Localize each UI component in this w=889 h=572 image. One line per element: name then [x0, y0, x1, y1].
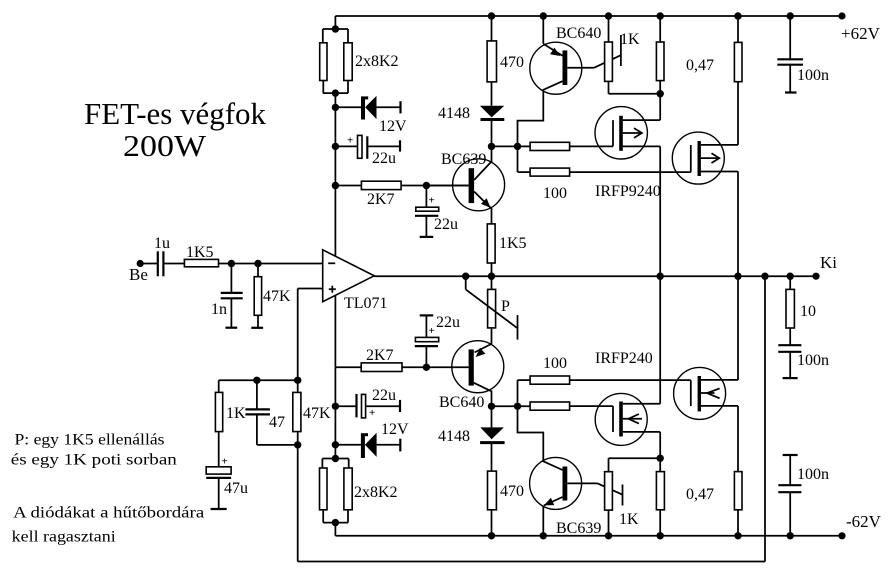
ground stub 1n [225, 327, 237, 329]
resistor 1K5 input [184, 244, 322, 267]
capacitor 47 [245, 380, 297, 445]
svg-text:1K5: 1K5 [186, 244, 214, 261]
svg-text:100n: 100n [797, 352, 829, 369]
resistor 100 upper first [518, 142, 614, 150]
svg-text:P: egy 1K5 ellenállás: P: egy 1K5 ellenállás [15, 432, 165, 449]
svg-text:TL071: TL071 [344, 295, 388, 312]
resistor 100 upper second [518, 168, 691, 202]
svg-text:10: 10 [800, 303, 816, 320]
svg-text:FET-es végfok: FET-es végfok [84, 96, 266, 131]
svg-text:100n: 100n [797, 67, 829, 84]
svg-text:200W: 200W [123, 128, 207, 163]
transistor M4 IRFP240 [674, 276, 738, 471]
svg-text:-62V: -62V [846, 512, 882, 531]
potentiometer P [466, 276, 518, 344]
resistor 100 lower second [530, 402, 613, 410]
svg-text:P: P [501, 298, 510, 315]
svg-text:22u: 22u [436, 314, 460, 331]
resistor 10 Zobel [786, 276, 816, 328]
wire -62V bottom rail [335, 535, 842, 537]
svg-text:1u: 1u [154, 235, 170, 252]
capacitor 1n [211, 264, 243, 328]
node top rail junctions [488, 12, 794, 19]
transistor M1 IRFP9240 [595, 94, 661, 277]
svg-text:2K7: 2K7 [366, 347, 394, 364]
svg-text:1K: 1K [619, 511, 639, 528]
svg-text:22u: 22u [434, 216, 458, 233]
resistor 2K7 upper [335, 181, 468, 208]
wire output bus to Ki [374, 275, 816, 277]
svg-text:+: + [369, 407, 375, 419]
note diodes text [12, 505, 205, 546]
resistor 2x8K2 upper pair [320, 16, 399, 97]
svg-text:2x8K2: 2x8K2 [354, 484, 398, 501]
svg-text:4148: 4148 [438, 428, 470, 445]
svg-text:470: 470 [500, 483, 524, 500]
svg-text:12V: 12V [379, 118, 407, 135]
wire noninverting node column [294, 289, 301, 393]
wire left node column upper [332, 93, 339, 189]
transistor Q3 BC640 lower [426, 341, 503, 411]
svg-text:BC640: BC640 [556, 25, 601, 42]
svg-text:+: + [429, 325, 435, 337]
ground stub 47K [251, 327, 263, 329]
svg-text:BC639: BC639 [441, 151, 486, 168]
svg-text:100n: 100n [797, 466, 829, 483]
capacitor 22u lower vertical [415, 314, 460, 367]
resistor 0,47 lower left [656, 455, 714, 536]
svg-text:1K: 1K [620, 31, 640, 48]
svg-text:+62V: +62V [841, 24, 881, 43]
svg-text:1K: 1K [226, 405, 246, 422]
resistor 1K feedback [215, 380, 246, 467]
svg-text:és egy 1K poti sorban: és egy 1K poti sorban [11, 451, 177, 468]
node -62V terminal [838, 512, 881, 539]
diode D1 4148 upper [438, 82, 504, 146]
capacitor 22u upper vertical [415, 186, 458, 237]
title text [84, 96, 266, 163]
resistor 470 upper [487, 16, 524, 82]
capacitor 47u [206, 456, 248, 510]
capacitor 22u upper horizontal [335, 135, 400, 167]
svg-text:2K7: 2K7 [367, 191, 395, 208]
svg-text:Be: Be [129, 265, 148, 284]
svg-text:+: + [429, 195, 435, 207]
svg-text:IRFP9240: IRFP9240 [595, 183, 661, 200]
wire op-amp noninverting input [298, 288, 323, 290]
capacitor 100n upper [777, 16, 829, 93]
node Be input terminal [129, 260, 148, 284]
node +62V terminal [838, 12, 880, 43]
svg-text:47K: 47K [263, 288, 291, 305]
svg-text:1K5: 1K5 [499, 235, 527, 252]
node collector junction lower [488, 380, 530, 410]
svg-text:BC640: BC640 [439, 394, 484, 411]
resistor 2x8K2 lower pair [320, 455, 398, 536]
wire feedback node row [219, 377, 298, 384]
diode D2 4148 lower [438, 406, 505, 471]
svg-text:1n: 1n [211, 301, 227, 318]
node output bus junctions [462, 273, 794, 280]
resistor 47K feedback [293, 392, 331, 448]
resistor 47K input [254, 264, 291, 328]
wire op-amp V+ supply [334, 186, 336, 368]
transistor Q4 BC639 lower [518, 406, 623, 537]
transistor M3 IRFP240 [595, 276, 660, 458]
svg-text:+: + [222, 456, 228, 468]
svg-text:2x8K2: 2x8K2 [355, 53, 399, 70]
transistor M2 IRFP9240 [672, 82, 738, 277]
resistor 0,47 lower right [734, 472, 742, 536]
svg-text:0,47: 0,47 [686, 57, 714, 74]
svg-text:12V: 12V [381, 421, 409, 438]
svg-text:100: 100 [543, 355, 567, 372]
note P text [11, 432, 177, 469]
resistor 1K5 emitter [487, 224, 526, 276]
svg-text:22u: 22u [372, 150, 396, 167]
svg-text:IRFP240: IRFP240 [595, 350, 653, 367]
potentiometer 1K upper [605, 16, 661, 94]
svg-text:A diódákat a hűtőbordára: A diódákat a hűtőbordára [13, 505, 204, 522]
capacitor 1u input [140, 235, 184, 276]
diode zener 12V upper [335, 96, 407, 135]
svg-text:47: 47 [269, 414, 285, 431]
svg-text:kell ragasztani: kell ragasztani [12, 529, 117, 546]
diode zener 12V lower [335, 421, 409, 458]
resistor 2K7 lower [335, 347, 430, 372]
potentiometer 1K lower [605, 458, 661, 536]
svg-text:4148: 4148 [438, 105, 470, 122]
svg-text:Ki: Ki [820, 253, 837, 272]
svg-text:0,47: 0,47 [686, 486, 714, 503]
svg-text:22u: 22u [372, 387, 396, 404]
op-amp U1 TL071 [323, 250, 388, 312]
svg-text:+: + [347, 135, 353, 147]
svg-text:100: 100 [543, 185, 567, 202]
wire left node column lower [332, 367, 339, 458]
capacitor 100n Zobel [778, 328, 829, 378]
svg-text:470: 470 [500, 54, 524, 71]
resistor 470 lower [488, 471, 525, 536]
transistor Q2 BC640 [518, 16, 621, 146]
svg-text:47u: 47u [224, 480, 248, 497]
node Ki terminal [812, 253, 837, 280]
transistor Q1 BC639 [426, 146, 504, 224]
node bottom rail junctions [488, 532, 794, 539]
resistor 0,47 upper right [734, 16, 742, 82]
svg-text:BC639: BC639 [556, 520, 601, 537]
wire +62V top rail [335, 15, 842, 17]
wire feedback loop [298, 276, 765, 561]
resistor 0,47 upper left [656, 16, 714, 97]
capacitor 100n lower right [778, 455, 829, 536]
resistor 100 lower first [518, 355, 691, 384]
capacitor 22u lower horizontal [335, 387, 400, 419]
node collector junction upper [488, 143, 521, 172]
svg-text:47K: 47K [303, 405, 331, 422]
